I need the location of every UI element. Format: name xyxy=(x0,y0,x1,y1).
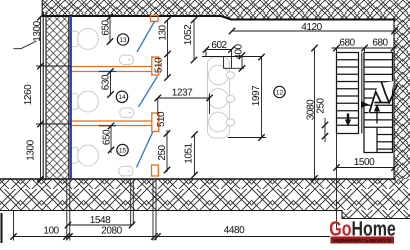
orange partition wall 1 (between stalls 13/14) xyxy=(71,66,152,68)
orange partition wall 2 (between stalls 14/15) xyxy=(71,120,152,122)
left wall inner face xyxy=(68,16,70,179)
floor drain stall 15 xyxy=(119,166,133,176)
stair arrow right (mid) xyxy=(361,101,369,108)
stair break zigzag xyxy=(370,82,398,112)
svg-text:650: 650 xyxy=(101,129,112,145)
left wall outer face double line xyxy=(42,12,44,180)
door swing stall 13 xyxy=(137,21,155,53)
stall circle 14 xyxy=(116,91,127,102)
toilet WC 15 xyxy=(70,145,98,166)
toilet WC 14 xyxy=(70,91,98,112)
bottom dim line (100/2080/4480) xyxy=(14,236,331,238)
svg-text:1052: 1052 xyxy=(183,24,194,45)
wash basin 2 xyxy=(208,89,228,109)
svg-text:1051: 1051 xyxy=(183,142,194,163)
dim 4120 xyxy=(232,30,395,32)
dim 1997 xyxy=(261,57,263,138)
left dim ticks xyxy=(37,14,43,182)
dim 650 stall 13 xyxy=(109,16,111,44)
sink alcove top line xyxy=(202,56,262,58)
toilet WC 13 xyxy=(70,29,98,50)
right wall hatch xyxy=(394,20,410,179)
top wall left corner edge xyxy=(41,0,43,16)
left dim leader kink xyxy=(14,41,37,49)
svg-text:1997: 1997 xyxy=(251,85,262,106)
dim 1548 xyxy=(68,224,132,226)
blue wall line (left inner face) xyxy=(70,16,72,179)
ext doubles at drain column xyxy=(130,179,132,225)
svg-text:4480: 4480 xyxy=(224,225,245,236)
stair arrow down (flight 1) xyxy=(347,114,349,121)
svg-text:250: 250 xyxy=(315,97,326,113)
left edge line fragment xyxy=(1,213,3,243)
stair flight 1 (left) xyxy=(337,53,359,134)
GoHome logo xyxy=(329,218,396,244)
door swing stall 15 xyxy=(137,132,153,168)
dim 1051 xyxy=(194,135,196,176)
svg-text:510: 510 xyxy=(154,57,165,73)
top wall hatch xyxy=(42,0,410,20)
door swing stall 14 xyxy=(139,76,158,107)
orange door column 1 xyxy=(152,57,159,75)
orange jamb stall 15 (bottom wall) xyxy=(152,165,159,176)
wash basin 3 xyxy=(208,112,228,132)
wash basin 1 xyxy=(208,65,228,85)
bottom ext line left edge xyxy=(13,211,15,241)
svg-text:630: 630 xyxy=(101,74,112,90)
svg-text:250: 250 xyxy=(157,144,168,160)
orange door column 2 xyxy=(152,113,159,132)
dim chain 130/510 (stall13 door) xyxy=(167,20,169,78)
right wall inner face xyxy=(393,20,395,179)
left wall hatch xyxy=(46,16,69,179)
dim 250 (stall 15 door) xyxy=(166,130,168,172)
bottom ext doubles at stall door line xyxy=(152,179,154,241)
sink counter xyxy=(208,57,230,138)
svg-text:НЕДВИЖИМОСТЬ БЕЛАРУСИ: НЕДВИЖИМОСТЬ БЕЛАРУСИ xyxy=(334,238,392,243)
bottom wall top edge xyxy=(0,178,396,180)
dim 1500 xyxy=(337,167,395,169)
stair flight divider double line xyxy=(361,53,363,134)
svg-text:680: 680 xyxy=(339,37,355,48)
svg-text:1260: 1260 xyxy=(23,84,34,105)
svg-text:602: 602 xyxy=(211,40,227,51)
dim 250 (stairs) xyxy=(324,118,326,142)
svg-text:14: 14 xyxy=(118,94,126,101)
top wall bottom edge xyxy=(42,16,395,20)
stair flight 2 (right) xyxy=(364,53,393,153)
svg-text:15: 15 xyxy=(119,147,127,154)
stairwell left boundary line xyxy=(336,48,338,230)
svg-text:130: 130 xyxy=(158,24,169,40)
svg-text:1237: 1237 xyxy=(172,88,193,99)
dim 1052 xyxy=(193,20,195,61)
bottom wall bottom edge with step xyxy=(0,211,410,219)
dim 680 + 680 xyxy=(332,47,398,49)
svg-text:510: 510 xyxy=(156,111,167,127)
stall circle 13 xyxy=(117,34,128,45)
break gap whiteout xyxy=(368,81,394,114)
left ext line at partition 2 xyxy=(36,123,71,125)
svg-text:1300: 1300 xyxy=(26,139,37,160)
svg-text:100: 100 xyxy=(43,225,59,236)
floor drain stall 14 xyxy=(120,108,134,118)
stair arrow up (flight 2) xyxy=(376,111,378,124)
dim 400 xyxy=(241,56,243,69)
svg-text:2080: 2080 xyxy=(101,225,122,236)
left dim chain line xyxy=(40,16,42,180)
svg-text:12: 12 xyxy=(276,89,284,96)
svg-text:650: 650 xyxy=(101,19,112,35)
svg-text:13: 13 xyxy=(119,37,127,44)
svg-text:1300: 1300 xyxy=(32,20,43,41)
svg-text:400: 400 xyxy=(234,43,245,59)
alcove step lines xyxy=(224,57,245,68)
room circle 12 xyxy=(274,86,285,97)
svg-text:1500: 1500 xyxy=(354,157,375,168)
bottom ext doubles at blue wall xyxy=(66,179,68,241)
svg-text:680: 680 xyxy=(372,37,388,48)
stall circle 15 xyxy=(117,144,128,155)
orange jamb stall 13 (top wall) xyxy=(151,16,159,22)
bottom wall hatch xyxy=(0,179,410,219)
dim 1237 xyxy=(158,97,210,99)
dim 630 stall 14 xyxy=(110,71,112,95)
svg-text:4120: 4120 xyxy=(301,22,322,33)
dim 3080 xyxy=(314,48,316,180)
dim 650 stall 15 xyxy=(110,126,112,153)
left ext line at partition 1 xyxy=(36,65,71,67)
dim 602 xyxy=(206,49,232,51)
floor drain stall 13 xyxy=(120,55,134,65)
